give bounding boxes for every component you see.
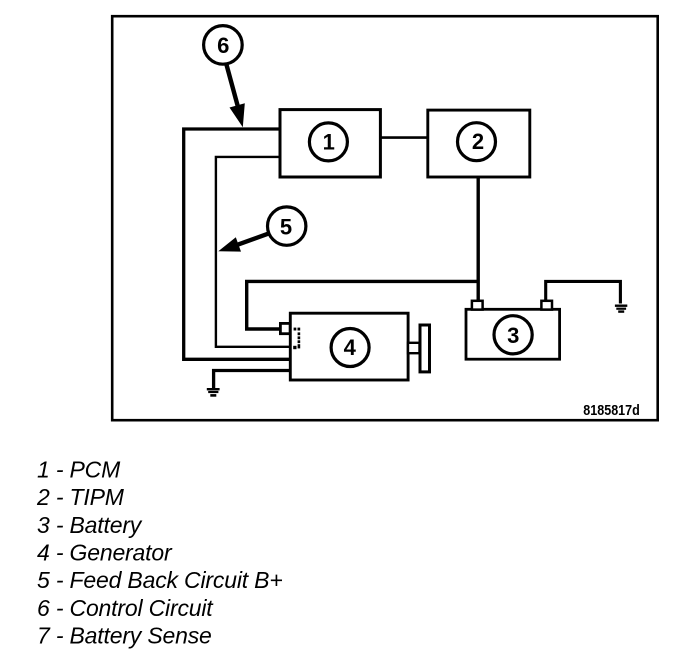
- svg-text:4 - Generator: 4 - Generator: [37, 540, 173, 566]
- svg-text:8185817d: 8185817d: [583, 402, 640, 419]
- svg-text:6 - Control Circuit: 6 - Control Circuit: [37, 595, 214, 621]
- svg-text:5: 5: [280, 215, 292, 240]
- svg-text:2: 2: [472, 129, 484, 154]
- svg-text:5 - Feed Back Circuit B+: 5 - Feed Back Circuit B+: [37, 567, 283, 593]
- svg-text:1 - PCM: 1 - PCM: [37, 456, 121, 482]
- svg-text:1: 1: [323, 129, 335, 154]
- svg-text:7 - Battery Sense: 7 - Battery Sense: [37, 623, 212, 649]
- svg-text:3 - Battery: 3 - Battery: [37, 512, 143, 538]
- svg-text:6: 6: [217, 33, 229, 58]
- svg-text:3: 3: [507, 323, 519, 348]
- svg-text:4: 4: [344, 335, 357, 360]
- svg-text:2 - TIPM: 2 - TIPM: [36, 484, 125, 510]
